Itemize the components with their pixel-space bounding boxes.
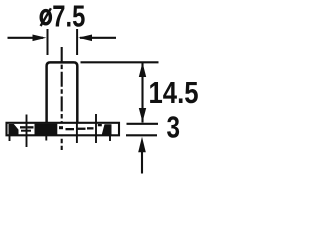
hidden dash a	[66, 128, 75, 130]
top extension line	[81, 61, 159, 63]
stub below tube left wall	[45, 136, 47, 141]
dimension label ø7.5	[41, 11, 50, 24]
left hole dash c	[21, 130, 31, 132]
left hole dash a	[20, 126, 26, 128]
extension line left	[47, 29, 49, 55]
left hole centerline	[26, 115, 28, 148]
ø7.5 right arrowhead	[78, 35, 92, 42]
ø7.5 right dimension line	[80, 37, 116, 39]
stub below flange right area	[109, 136, 111, 142]
flange top extension line right	[127, 123, 159, 125]
3 bottom arrowhead up	[138, 137, 146, 152]
svg-text:14.5: 14.5	[149, 75, 199, 110]
flange section fill left	[9, 124, 19, 135]
svg-text:7.5: 7.5	[52, 0, 85, 33]
14.5 arrowhead up	[139, 63, 146, 78]
stub below flange left end	[9, 136, 11, 142]
hidden dash b	[78, 128, 86, 130]
stub below tube right wall	[76, 136, 78, 144]
14.5 arrowhead down / 3 top arrow	[139, 108, 146, 122]
flange section fill center	[35, 124, 58, 135]
svg-text:3: 3	[167, 110, 181, 145]
ø7.5 left dimension line	[8, 37, 44, 39]
tube centerline	[61, 47, 63, 150]
extension line right	[76, 29, 78, 55]
right hole dash a	[87, 127, 94, 129]
right hole centerline	[95, 114, 97, 143]
flange outline	[7, 123, 120, 136]
14.5 dimension line	[141, 62, 143, 123]
left hole dash b	[28, 126, 34, 128]
tube right wall through flange	[76, 123, 78, 136]
flange section fill right	[102, 124, 112, 134]
3 bottom arrow shaft	[141, 152, 143, 174]
tube outline	[47, 62, 78, 123]
flange bottom extension line right	[126, 134, 157, 136]
right hole dash b	[98, 124, 102, 126]
center small mark	[59, 126, 63, 129]
ø7.5 left arrowhead	[33, 35, 47, 42]
